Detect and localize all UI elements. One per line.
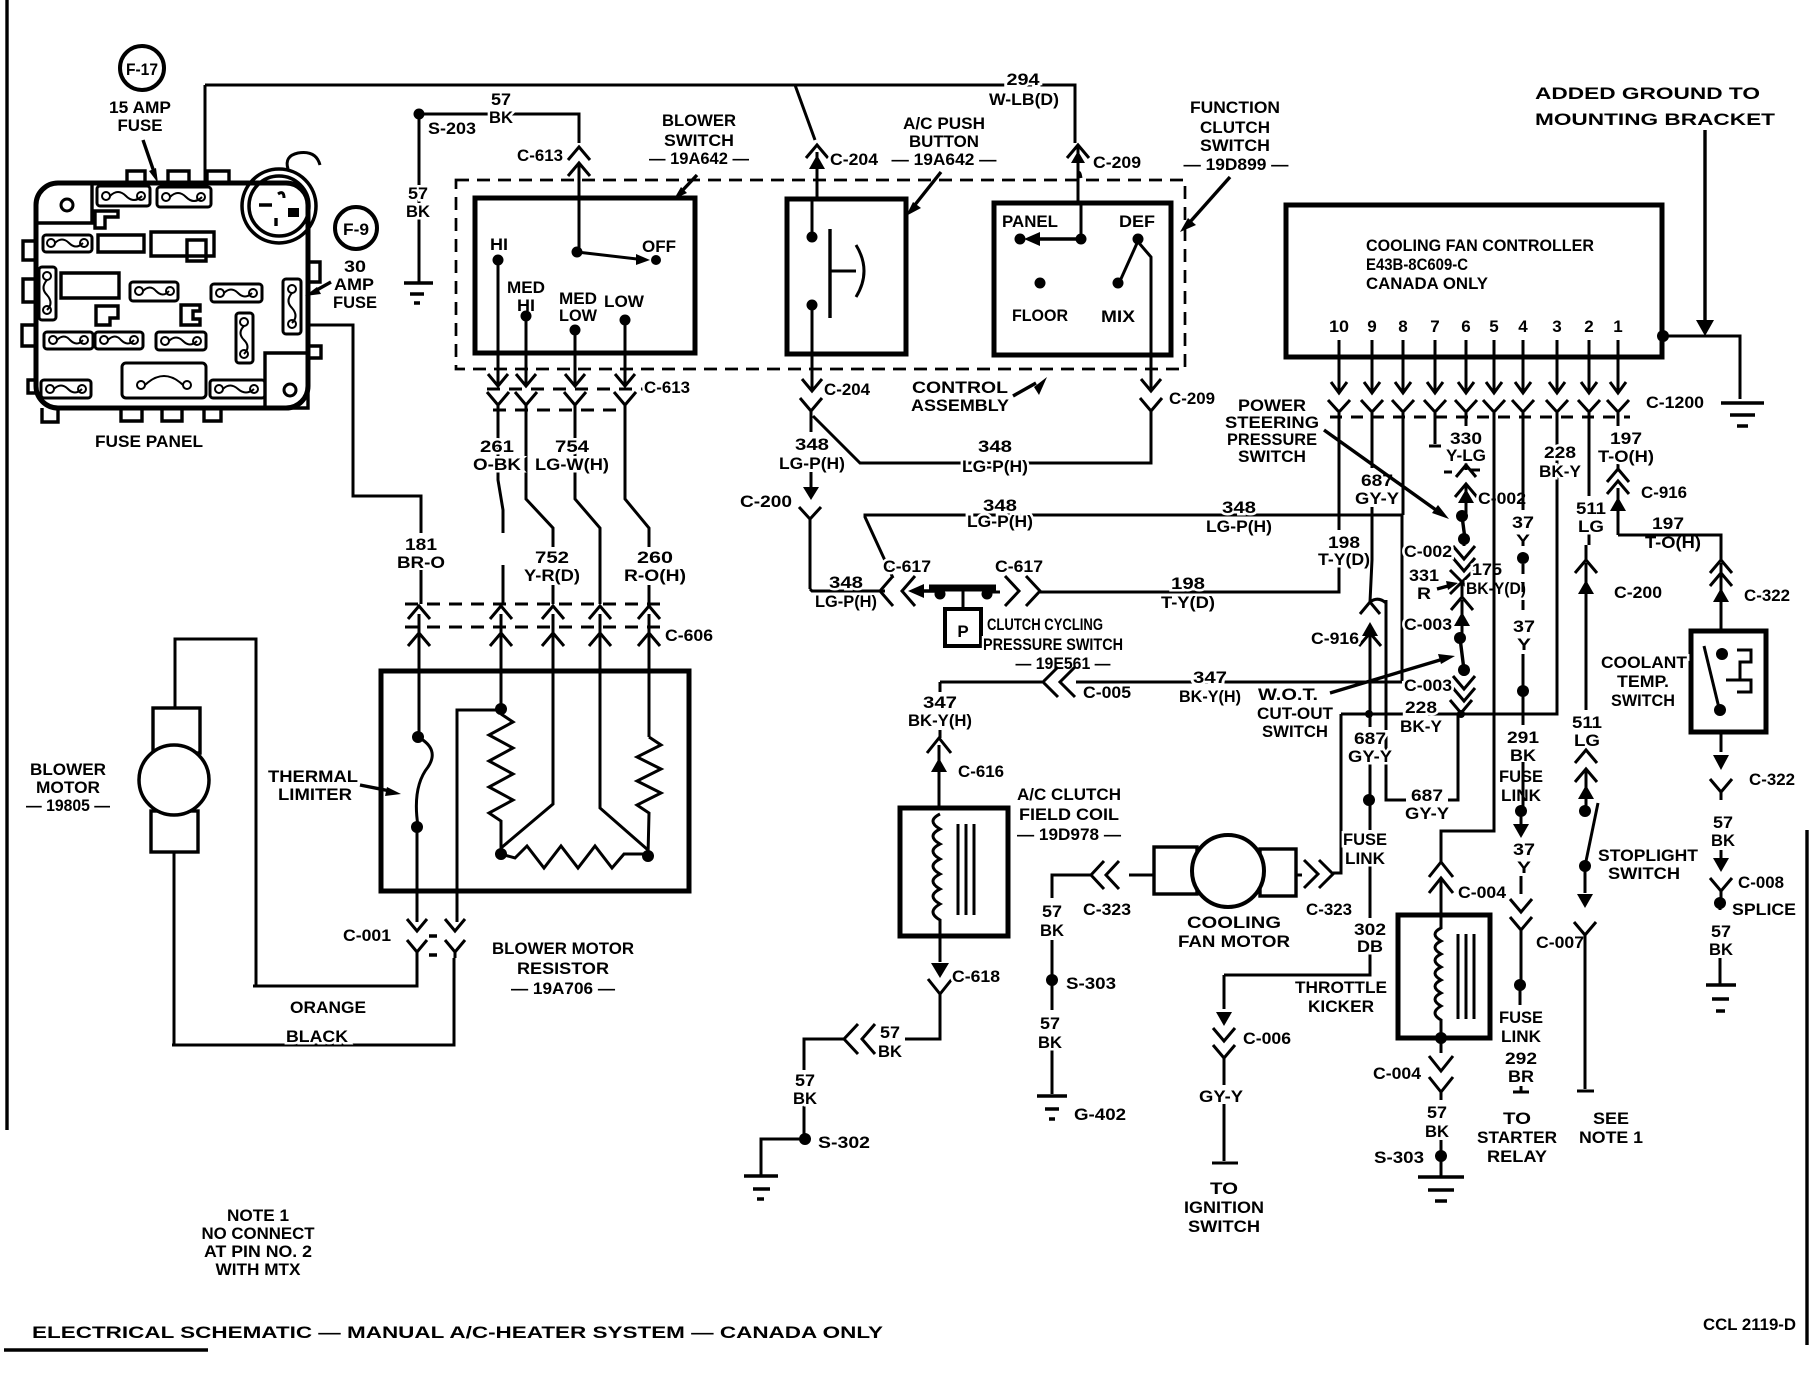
svg-text:197: 197 <box>1610 429 1642 448</box>
wire C-204 down to C-200 <box>810 472 813 489</box>
svg-text:FUSE: FUSE <box>118 116 163 135</box>
wire fan motor left <box>1129 874 1154 877</box>
svg-text:348: 348 <box>829 573 863 592</box>
node wiper <box>572 247 583 258</box>
svg-text:LG-P(H): LG-P(H) <box>967 512 1033 531</box>
svg-text:LG-P(H): LG-P(H) <box>779 454 845 473</box>
connector C-323 left chevrons <box>1091 861 1119 889</box>
fuse panel corner hole <box>61 199 73 211</box>
svg-text:— 19A642 —: — 19A642 — <box>649 149 749 168</box>
svg-text:SEE: SEE <box>1593 1109 1629 1128</box>
svg-text:FUSE: FUSE <box>1499 767 1543 786</box>
wire function feed up <box>1078 173 1081 240</box>
wire controller ground <box>1663 336 1740 399</box>
connector Y to 228 junction <box>1450 700 1472 714</box>
svg-text:Y: Y <box>1516 531 1531 550</box>
svg-text:IGNITION: IGNITION <box>1184 1198 1264 1217</box>
svg-text:10: 10 <box>1329 317 1349 336</box>
svg-text:347: 347 <box>1193 668 1227 687</box>
svg-text:F-17: F-17 <box>126 60 158 79</box>
throttle kicker core <box>1458 934 1474 1019</box>
pin 4 wire 37 Y <box>1522 420 1525 510</box>
connector C-1200 row <box>1328 400 1630 424</box>
svg-text:AMP: AMP <box>334 275 374 294</box>
svg-text:Y-LG: Y-LG <box>1446 446 1486 465</box>
connector C-209 lower <box>863 355 1162 463</box>
svg-text:— 19D899 —: — 19D899 — <box>1184 155 1289 174</box>
svg-text:7: 7 <box>1430 317 1439 336</box>
wire 752 into box <box>501 671 553 848</box>
svg-text:LG: LG <box>1578 517 1604 536</box>
svg-text:BK-Y(H): BK-Y(H) <box>1179 687 1241 706</box>
svg-text:C-209: C-209 <box>1093 153 1141 172</box>
wire fuse F7 to 181 BR-O <box>310 325 421 533</box>
svg-text:C-204: C-204 <box>830 150 879 169</box>
wire 754 into box <box>600 671 648 850</box>
svg-text:W-LB(D): W-LB(D) <box>989 90 1059 109</box>
junction 347 at W.O.T. column <box>1365 710 1373 718</box>
wire 197 to coolant temp switch <box>1618 535 1721 560</box>
ignition cylinder circle <box>242 153 320 244</box>
svg-text:SWITCH: SWITCH <box>664 131 734 150</box>
clutch cycling pressure switch bar <box>929 585 996 592</box>
svg-text:C-322: C-322 <box>1744 586 1790 605</box>
svg-text:BK-Y: BK-Y <box>1400 717 1443 736</box>
svg-text:C-204: C-204 <box>824 380 871 399</box>
fuse panel body <box>36 183 308 408</box>
wire 57 BK to S-302 <box>804 1039 845 1139</box>
connector C-606 row <box>405 604 660 671</box>
arrow added ground <box>1703 130 1706 320</box>
P switch stem <box>962 591 965 609</box>
svg-text:C-916: C-916 <box>1641 483 1687 502</box>
A/C push button bar <box>828 229 831 318</box>
svg-text:C-613: C-613 <box>517 146 563 165</box>
svg-text:175: 175 <box>1472 560 1502 579</box>
F-9 fuse symbol <box>335 207 377 249</box>
bottom-right hole <box>284 384 296 396</box>
page border left <box>5 0 8 1130</box>
svg-text:3: 3 <box>1552 317 1561 336</box>
wire S-203 to C-613 <box>419 114 579 143</box>
fuse F6 <box>211 284 262 302</box>
svg-text:Y-R(D): Y-R(D) <box>524 566 580 585</box>
arrow blower switch <box>681 175 697 192</box>
svg-text:CONTROL: CONTROL <box>912 378 1008 397</box>
svg-text:LG-W(H): LG-W(H) <box>535 455 609 474</box>
svg-text:RESISTOR: RESISTOR <box>517 959 609 978</box>
throttle kicker coil <box>1435 915 1441 1038</box>
arrow thermal limiter <box>360 785 390 791</box>
svg-text:294: 294 <box>1007 70 1041 89</box>
node throttle kicker bottom <box>1435 1032 1447 1044</box>
wire 260 into box <box>648 671 651 737</box>
connector C-200 right <box>1575 560 1597 607</box>
svg-text:C-617: C-617 <box>883 557 931 576</box>
fuse F11 vertical <box>236 313 253 363</box>
wire stoplight down <box>1584 866 1587 893</box>
connector C-323 right chevrons <box>1304 860 1333 888</box>
svg-text:S-303: S-303 <box>1066 974 1116 993</box>
svg-text:C-1200: C-1200 <box>1646 393 1704 412</box>
svg-text:MOTOR: MOTOR <box>36 778 100 797</box>
svg-text:FAN MOTOR: FAN MOTOR <box>1178 932 1290 951</box>
arrow 30 amp fuse <box>315 282 331 291</box>
svg-text:SWITCH: SWITCH <box>1200 136 1270 155</box>
wire coil 57 BK to G-402 <box>1052 875 1092 1094</box>
svg-text:511: 511 <box>1572 713 1602 732</box>
connector C-003 upper chevrons <box>1451 597 1473 638</box>
wire fan motor right to 228 <box>1296 714 1341 875</box>
svg-text:S-203: S-203 <box>428 119 476 138</box>
svg-text:1: 1 <box>1613 317 1622 336</box>
wire thermal limiter down <box>416 827 419 915</box>
stoplight switch blade <box>1585 803 1598 866</box>
svg-text:DB: DB <box>1357 937 1383 956</box>
wire S-302 to ground <box>761 1139 805 1176</box>
svg-text:5: 5 <box>1489 317 1498 336</box>
node controller ground <box>1657 330 1669 342</box>
node 37 Y <box>1517 552 1529 564</box>
svg-text:ASSEMBLY: ASSEMBLY <box>911 396 1010 415</box>
fuse link node 2 <box>1522 762 1525 808</box>
connector chevrons stoplight <box>1575 750 1597 811</box>
wire 348 to C-617 <box>810 589 885 591</box>
resistor R3 horizontal zigzag <box>501 846 648 868</box>
wires A/C push button <box>811 199 814 354</box>
connector junction X <box>1450 570 1474 596</box>
arrow function clutch switch <box>1190 177 1230 222</box>
svg-text:37: 37 <box>1513 840 1535 859</box>
svg-text:R: R <box>1417 584 1431 603</box>
contact MIX <box>1113 278 1124 289</box>
svg-text:C-916: C-916 <box>1311 629 1359 648</box>
wire 57 BK down <box>1720 850 1723 858</box>
clutch cycling pressure switch arrow left <box>922 589 940 592</box>
node 291 junction <box>1517 685 1529 697</box>
wire motor top (orange) <box>175 639 256 986</box>
wire orange to C-001 <box>253 958 417 986</box>
splice S-203 <box>414 109 425 120</box>
wiper arm to OFF <box>577 252 637 259</box>
connector C-322 <box>1710 560 1732 631</box>
svg-text:— 19E561 —: — 19E561 — <box>1016 654 1111 673</box>
svg-text:GY-Y: GY-Y <box>1355 489 1400 508</box>
svg-text:LINK: LINK <box>1345 849 1386 868</box>
svg-text:T-O(H): T-O(H) <box>1598 447 1654 466</box>
blower motor top cap <box>153 708 200 753</box>
contact FLOOR <box>1035 278 1046 289</box>
svg-text:BK: BK <box>489 108 514 127</box>
blower motor resistor box <box>381 671 689 891</box>
ground G-402 <box>1037 1096 1067 1119</box>
pin 1 wire 197 T-O(H) <box>1617 420 1620 470</box>
svg-text:197: 197 <box>1652 514 1684 533</box>
svg-text:228: 228 <box>1405 698 1437 717</box>
svg-text:LOW: LOW <box>604 292 645 311</box>
pin 7 stub <box>1429 420 1441 446</box>
svg-text:CANADA ONLY: CANADA ONLY <box>1366 274 1489 293</box>
svg-text:BUTTON: BUTTON <box>909 132 979 151</box>
arrow A/C push button <box>914 172 941 206</box>
fuse panel right tabs <box>308 262 321 358</box>
connector C-916 right <box>1607 469 1629 535</box>
svg-text:THROTTLE: THROTTLE <box>1295 978 1387 997</box>
svg-text:348: 348 <box>978 437 1012 456</box>
connector C-006 <box>1213 1028 1235 1085</box>
wire 181 BR-O into box <box>418 671 421 736</box>
svg-text:C-200: C-200 <box>1614 583 1662 602</box>
svg-text:C-003: C-003 <box>1404 615 1452 634</box>
svg-text:260: 260 <box>637 548 673 567</box>
page border right <box>1805 830 1808 1345</box>
wire into clutch coil <box>938 776 941 814</box>
pressure switch P box <box>945 609 981 646</box>
svg-text:MOUNTING BRACKET: MOUNTING BRACKET <box>1535 110 1776 129</box>
svg-text:SWITCH: SWITCH <box>1188 1217 1260 1236</box>
svg-text:LINK: LINK <box>1501 786 1542 805</box>
svg-text:E43B-8C609-C: E43B-8C609-C <box>1366 255 1468 274</box>
arrow W.O.T. <box>1330 660 1440 693</box>
svg-text:BLOWER MOTOR: BLOWER MOTOR <box>492 939 634 958</box>
connector C-204 top <box>806 145 828 199</box>
contact PANEL <box>1015 234 1026 245</box>
fuse link node <box>1363 794 1375 806</box>
connector C-617 left chevrons <box>880 576 915 606</box>
node bar right <box>982 589 993 600</box>
connector half-dash chevron <box>1444 465 1480 477</box>
connector C-209 top <box>1067 145 1089 203</box>
svg-text:511: 511 <box>1576 499 1606 518</box>
svg-text:C-007: C-007 <box>1536 933 1584 952</box>
connector C-003 lower chevrons <box>1453 670 1475 701</box>
connector C-617 right chevrons <box>1005 576 1040 606</box>
svg-text:4: 4 <box>1518 317 1528 336</box>
svg-text:348: 348 <box>795 435 829 454</box>
svg-text:LG: LG <box>1574 731 1600 750</box>
svg-text:C-008: C-008 <box>1738 873 1784 892</box>
connector C-616 <box>927 730 951 780</box>
svg-text:57: 57 <box>1427 1103 1447 1122</box>
svg-text:C-004: C-004 <box>1373 1064 1422 1083</box>
fuse F3 <box>43 235 92 252</box>
coil core lines <box>958 824 974 915</box>
panel arm with arrowhead <box>1040 237 1081 240</box>
svg-text:C-001: C-001 <box>343 926 391 945</box>
wire to starter relay <box>1513 985 1529 1092</box>
svg-text:STOPLIGHT: STOPLIGHT <box>1598 846 1699 865</box>
svg-text:C-322: C-322 <box>1749 770 1795 789</box>
svg-text:MIX: MIX <box>1101 307 1136 326</box>
F-17 fuse symbol <box>120 46 164 90</box>
cooling fan motor right terminal <box>1260 849 1296 896</box>
svg-text:O-BK: O-BK <box>473 455 522 474</box>
svg-text:30: 30 <box>344 257 366 276</box>
svg-text:261: 261 <box>480 437 514 456</box>
svg-text:LIMITER: LIMITER <box>278 785 352 804</box>
svg-text:COOLING: COOLING <box>1187 913 1281 932</box>
power steering pressure switch contacts <box>1456 510 1468 522</box>
svg-text:S-303: S-303 <box>1374 1148 1424 1167</box>
svg-text:BK: BK <box>878 1042 903 1061</box>
fuse F14 <box>210 380 265 398</box>
svg-text:2: 2 <box>1584 317 1593 336</box>
svg-text:C-005: C-005 <box>1083 683 1131 702</box>
wire 37 Y solid <box>1522 654 1525 725</box>
ground S-302 <box>744 1176 778 1199</box>
arrow 15 amp fuse <box>143 140 154 172</box>
node resistor bottom left <box>495 848 507 860</box>
splice S-303 <box>1440 1140 1443 1156</box>
svg-text:BK: BK <box>1709 940 1734 959</box>
wire 261 O-BK into box <box>500 671 503 709</box>
svg-text:TO: TO <box>1503 1109 1531 1128</box>
ignition cylinder marks <box>259 205 276 226</box>
svg-text:C-003: C-003 <box>1404 676 1452 695</box>
svg-text:HI: HI <box>490 235 508 254</box>
A/C push button contacts <box>807 232 818 243</box>
A/C push button box <box>787 199 906 354</box>
svg-text:181: 181 <box>405 535 437 554</box>
svg-text:SWITCH: SWITCH <box>1238 447 1306 466</box>
svg-text:MED: MED <box>507 278 545 297</box>
svg-text:BK: BK <box>1425 1122 1450 1141</box>
resistor R2 vertical zigzag <box>637 737 661 856</box>
connector C-618 <box>905 979 952 1039</box>
stoplight switch contact bottom <box>1579 860 1591 872</box>
svg-text:FIELD COIL: FIELD COIL <box>1019 805 1119 824</box>
svg-text:NOTE 1: NOTE 1 <box>227 1206 289 1225</box>
wire S-203 down <box>418 118 421 283</box>
svg-text:C-616: C-616 <box>958 762 1004 781</box>
svg-text:57: 57 <box>408 184 428 203</box>
stoplight switch contact top <box>1579 805 1591 817</box>
svg-text:C-200: C-200 <box>740 492 792 511</box>
A/C clutch field coil box <box>900 808 1008 936</box>
coolant temp switch box <box>1691 631 1766 732</box>
fuse F10 <box>156 332 206 350</box>
cooling fan controller box <box>1286 205 1662 357</box>
svg-text:291: 291 <box>1507 728 1539 747</box>
svg-text:347: 347 <box>923 693 957 712</box>
wires switch contacts down <box>498 260 625 353</box>
coolant temp contact top <box>1716 648 1728 660</box>
blower motor bottom cap <box>151 811 198 852</box>
svg-text:292: 292 <box>1505 1049 1537 1068</box>
DEF blade to MIX <box>1120 241 1138 281</box>
splice S-302 <box>799 1133 811 1145</box>
connector C-613 lower row <box>487 353 649 604</box>
svg-text:15 AMP: 15 AMP <box>109 98 171 117</box>
node resistor top <box>495 703 507 715</box>
svg-text:C-606: C-606 <box>665 626 713 645</box>
ground S-203 <box>404 283 433 303</box>
resistor R1 vertical zigzag <box>489 714 513 854</box>
blower switch box <box>475 198 695 353</box>
svg-text:DEF: DEF <box>1119 212 1155 231</box>
svg-text:TEMP.: TEMP. <box>1617 672 1669 691</box>
svg-text:Y: Y <box>1517 635 1532 654</box>
pin 8 wire <box>1402 420 1403 681</box>
svg-text:FUSE: FUSE <box>1499 1008 1543 1027</box>
coolant temp contact bottom <box>1714 704 1726 716</box>
svg-text:BK-Y: BK-Y <box>1539 462 1582 481</box>
svg-text:S-302: S-302 <box>818 1133 870 1152</box>
svg-text:SPLICE: SPLICE <box>1732 900 1796 919</box>
svg-text:57: 57 <box>1040 1014 1060 1033</box>
fuse panel top tabs <box>127 171 229 183</box>
wire bar to >> <box>987 591 1000 594</box>
wire 348 diagonal from C-204 <box>813 416 863 463</box>
svg-text:PRESSURE SWITCH: PRESSURE SWITCH <box>983 635 1123 654</box>
svg-text:THERMAL: THERMAL <box>268 767 358 786</box>
svg-text:C-323: C-323 <box>1083 900 1131 919</box>
A/C push button arc <box>856 245 864 297</box>
fuse F7 vertical (30 amp) <box>283 279 301 334</box>
fuse F12 <box>41 380 91 398</box>
svg-text:LG-P(H): LG-P(H) <box>962 457 1028 476</box>
node bar left <box>935 589 946 600</box>
wire S-303 ground <box>1440 1156 1443 1177</box>
svg-text:57: 57 <box>880 1023 900 1042</box>
wire coolant temp down <box>1720 732 1723 752</box>
svg-text:FUSE PANEL: FUSE PANEL <box>95 432 203 451</box>
svg-text:F-9: F-9 <box>343 220 369 239</box>
node C-007 <box>1514 979 1526 991</box>
svg-text:A/C PUSH: A/C PUSH <box>903 114 985 133</box>
W.O.T. cut-out switch contacts <box>1454 632 1466 644</box>
coil winding <box>933 814 940 936</box>
connector C-002 upper chevrons <box>1455 484 1477 516</box>
svg-text:8: 8 <box>1398 317 1407 336</box>
connector C-204 lower <box>800 354 822 432</box>
blower switch wiper feed <box>578 198 581 252</box>
svg-text:752: 752 <box>535 548 569 567</box>
wire 347 BK-Y(H) horizontal <box>940 681 1402 684</box>
connector C-004 lower <box>1429 1038 1453 1100</box>
svg-text:C-323: C-323 <box>1306 900 1352 919</box>
fuse panel bottom tabs <box>42 408 221 422</box>
svg-text:331: 331 <box>1409 566 1439 585</box>
fuse F2 (15 amp) <box>157 187 211 207</box>
relay blank rects <box>61 232 214 298</box>
svg-text:37: 37 <box>1513 617 1535 636</box>
connector 57 BK chevrons <box>844 1024 875 1054</box>
svg-text:NO CONNECT: NO CONNECT <box>202 1224 316 1243</box>
svg-text:CCL 2119-D: CCL 2119-D <box>1703 1315 1796 1334</box>
svg-text:STARTER: STARTER <box>1477 1128 1557 1147</box>
svg-text:T-Y(D): T-Y(D) <box>1318 550 1370 569</box>
fuse panel bottom-right box <box>265 353 308 408</box>
svg-text:ELECTRICAL SCHEMATIC — MANUAL: ELECTRICAL SCHEMATIC — MANUAL A/C-HEATER… <box>32 1323 884 1342</box>
svg-text:W.O.T.: W.O.T. <box>1258 685 1318 704</box>
wire 347 down to C-616 <box>939 682 942 692</box>
svg-text:57: 57 <box>1713 813 1733 832</box>
connector C-916 inline <box>1360 599 1458 800</box>
arrow control assembly <box>1013 383 1036 396</box>
svg-text:LOW: LOW <box>559 306 598 325</box>
wire fuse panel to top feed <box>204 85 207 183</box>
svg-text:6: 6 <box>1461 317 1470 336</box>
wire to ignition switch <box>1212 1104 1238 1163</box>
svg-text:57: 57 <box>491 90 511 109</box>
wire top feed horizontal <box>205 85 1075 143</box>
svg-text:— 19A706 —: — 19A706 — <box>511 979 615 998</box>
connector C-002 lower chevrons <box>1453 539 1475 571</box>
relay small shapes <box>95 211 206 325</box>
splice node <box>1714 897 1726 909</box>
blower motor body <box>139 745 209 815</box>
